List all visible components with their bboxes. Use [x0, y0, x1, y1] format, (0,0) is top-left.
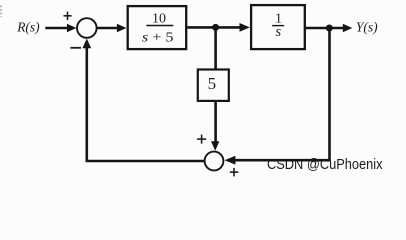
node B junction dot: [326, 25, 333, 32]
wire summer S2 left and up to summer S1: [87, 44, 205, 161]
block G1: 10/(s+5): [128, 6, 187, 49]
svg-text:s: s: [275, 24, 281, 40]
svg-text:CSDN @CuPhoenix: CSDN @CuPhoenix: [267, 156, 383, 173]
wire block H1 down to summer S2: [214, 101, 217, 143]
minus sign at summer S1: [70, 47, 81, 49]
wire node B down and left to summer S2: [235, 28, 330, 160]
wire G2 to output Y(s): [306, 27, 344, 30]
svg-text:Y(s): Y(s): [356, 20, 378, 35]
summing junction S1: [77, 18, 97, 38]
svg-text:10: 10: [152, 12, 166, 27]
block G2: 1/s: [251, 5, 305, 49]
block H1: 5: [198, 70, 229, 101]
wire node A down to block H1: [214, 27, 217, 69]
svg-text:R(s): R(s): [16, 19, 40, 34]
plus sign at summer S1: [64, 12, 72, 20]
node A junction dot: [212, 24, 219, 31]
wire G1 to G2: [187, 26, 240, 29]
svg-text:s + 5: s + 5: [142, 31, 174, 46]
wire summer S1 to block G1: [97, 27, 119, 30]
summing junction S2: [205, 152, 224, 171]
wire R(s) to summer S1: [45, 27, 68, 30]
plus sign upper-left of summer S2: [197, 135, 206, 144]
stray mark top-left edge: [0, 6, 2, 18]
svg-text:5: 5: [208, 74, 217, 93]
plus sign lower-right of summer S2: [230, 168, 239, 177]
